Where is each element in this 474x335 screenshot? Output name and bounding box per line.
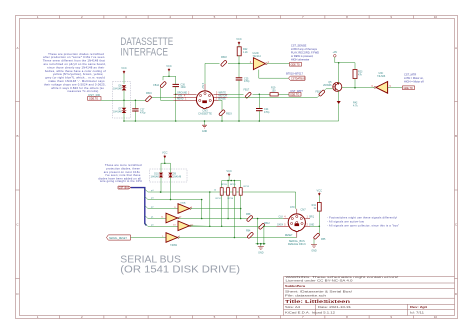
hierarchical label CSTDATBUS <box>289 76 306 80</box>
global label GDE.TO (CST_SENSE) <box>290 63 302 67</box>
svg-text:FB16: FB16 <box>146 92 152 95</box>
svg-text:File: datassette.sch: File: datassette.sch <box>285 293 327 297</box>
svg-text:470p: 470p <box>140 111 146 114</box>
svg-text:HIGH = Motor off: HIGH = Motor off <box>404 80 424 84</box>
svg-text:VCC: VCC <box>166 64 172 68</box>
power VCC (above R22) <box>236 37 242 47</box>
svg-text:2N3906: 2N3906 <box>323 84 332 87</box>
svg-text:LOW = Motor on,: LOW = Motor on, <box>404 76 424 80</box>
svg-text:Rev: 2git: Rev: 2git <box>410 305 427 309</box>
diode D10 1N4148 <box>150 173 163 179</box>
svg-text:ATN: ATN <box>290 206 295 209</box>
svg-text:RP1C: RP1C <box>216 198 222 200</box>
svg-text:FB8: FB8 <box>246 213 251 216</box>
svg-text:VCC: VCC <box>162 151 168 155</box>
diode D7 1N4148 <box>113 100 126 121</box>
resistor pack labels <box>214 184 250 200</box>
svg-text:VCC: VCC <box>236 37 242 41</box>
wire ATN line <box>161 192 296 209</box>
svg-text:Licensed under CC BY-NC-SA 4.0: Licensed under CC BY-NC-SA 4.0 <box>286 279 354 283</box>
junction (write/C24) <box>259 94 261 96</box>
global label CST bus <box>118 186 131 190</box>
ferrite bead FB14 <box>153 81 166 88</box>
CN3 right pin stubs + labels <box>213 93 227 101</box>
svg-text:VCC: VCC <box>121 66 127 70</box>
svg-text:RP1D: RP1D <box>230 184 236 186</box>
svg-text:VCC: VCC <box>226 169 232 173</box>
ground symbol (serial left) <box>258 247 264 255</box>
CN7 pin stubs + labels <box>277 206 315 238</box>
svg-text:GND: GND <box>258 252 264 255</box>
capacitor C26 100n <box>173 83 187 121</box>
svg-text:VCC: VCC <box>317 188 323 192</box>
svg-text:INTERFACE: INTERFACE <box>120 47 168 59</box>
capacitor C24 470p <box>256 94 270 121</box>
svg-text:FB12: FB12 <box>264 222 270 225</box>
svg-text:10: 10 <box>434 315 438 319</box>
svg-text:10: 10 <box>434 15 438 19</box>
wire sense top run <box>205 63 253 84</box>
title block <box>284 277 455 316</box>
svg-text:1N4148: 1N4148 <box>113 110 122 113</box>
svg-text:470p: 470p <box>244 80 250 83</box>
svg-text:HIGH otherwise: HIGH otherwise <box>291 57 310 61</box>
svg-text:Id: 7/11: Id: 7/11 <box>410 310 425 314</box>
dashed box around D6 D7 <box>113 82 131 119</box>
svg-text:4.7k: 4.7k <box>353 104 358 107</box>
resistor R19 <box>270 87 278 96</box>
svg-text:150: 150 <box>272 90 277 93</box>
resistor RP10C <box>233 181 236 239</box>
power VCC (serial diodes) <box>162 151 168 164</box>
resistor pack RP10 top rail + VCC <box>222 169 241 182</box>
ferrite bead FB4 (on reset line) <box>247 232 254 239</box>
ferrite bead FB18 <box>220 56 227 67</box>
svg-text:CN7: CN7 <box>301 208 307 212</box>
wire DATA line to CN7 <box>210 225 277 227</box>
svg-text:B: B <box>455 134 457 138</box>
svg-text:FEMALE DIN-6: FEMALE DIN-6 <box>288 242 306 246</box>
svg-text:FB14: FB14 <box>153 84 159 87</box>
wire write line <box>228 93 290 95</box>
svg-text:RP1F: RP1F <box>244 186 250 188</box>
svg-text:FB4: FB4 <box>246 230 251 233</box>
note: protection diode comment (blue paragraph) <box>43 52 106 93</box>
note CST_SENSE (blue) <box>291 43 319 61</box>
svg-text:MOTOR: MOTOR <box>219 96 228 98</box>
junction (D6/D7/READ) <box>123 100 125 102</box>
svg-text:Title: LittleSixteen: Title: LittleSixteen <box>285 299 351 304</box>
svg-text:A: A <box>16 46 18 50</box>
inverter U10A (7406) top <box>174 202 241 220</box>
ferrite bead FB5 + wire to gnd <box>313 226 326 245</box>
svg-text:GDE.TO: GDE.TO <box>89 98 98 101</box>
svg-text:- All signals are active-low: - All signals are active-low <box>327 220 364 224</box>
global label SERIAL_RESET <box>107 235 131 240</box>
svg-text:BT010~BT017: BT010~BT017 <box>286 72 303 76</box>
ferrite bead FB16 <box>145 92 152 102</box>
global label CST_RD <box>88 93 102 101</box>
ground symbol (datassette) <box>202 120 208 133</box>
svg-text:+9V: +9V <box>332 50 337 54</box>
svg-text:1N4148: 1N4148 <box>150 176 159 178</box>
svg-text:or REW is pressed,: or REW is pressed, <box>291 54 314 58</box>
note CST_MTR (blue) <box>404 73 424 84</box>
connector CN3 C2N CASSETTE (DIN) <box>196 91 213 116</box>
svg-text:CLK: CLK <box>279 217 284 219</box>
svg-text:GROUND: GROUND <box>177 93 188 95</box>
capacitor C27 470p <box>132 100 146 122</box>
svg-text:Date: 2021-10-31: Date: 2021-10-31 <box>318 305 352 309</box>
svg-text:GDE.TO: GDE.TO <box>291 64 300 67</box>
note: serial protection diodes comment (blue paragraph) <box>98 163 142 183</box>
wire ground rail <box>124 120 339 122</box>
connector CN7 SERIAL_BUS (DIN-6) <box>288 208 306 247</box>
svg-text:FB17: FB17 <box>244 88 250 91</box>
svg-text:1N4148: 1N4148 <box>113 87 122 90</box>
ground symbol (serial right) <box>311 245 317 253</box>
svg-text:RP1B: RP1B <box>221 184 227 186</box>
wire motor line <box>228 89 333 98</box>
global label GDE.TO (CST_WRT) <box>289 93 301 97</box>
inverter U10D (7406) reset <box>162 233 296 247</box>
wire Q5 collector to rail with diode mark <box>337 91 359 121</box>
ferrite bead FB7 (on CLK) <box>246 215 253 222</box>
svg-text:CST_MTR: CST_MTR <box>404 73 416 77</box>
inverter U10B (7406) <box>161 213 201 223</box>
svg-text:74LS06: 74LS06 <box>377 75 386 78</box>
dashed box around D10 D9 <box>150 169 188 182</box>
svg-text:U10A: U10A <box>180 202 186 205</box>
svg-text:7406N: 7406N <box>170 244 177 247</box>
resistor R22 <box>237 47 248 64</box>
ferrite bead FB19 <box>219 100 233 121</box>
svg-text:D10: D10 <box>154 174 159 176</box>
svg-text:100n: 100n <box>181 86 187 89</box>
resistor R23 <box>353 63 363 88</box>
svg-text:FB5: FB5 <box>321 238 326 241</box>
svg-text:RP1E: RP1E <box>228 198 234 200</box>
svg-text:CASSETTE: CASSETTE <box>198 111 212 115</box>
diode D6 1N4148 <box>113 85 126 101</box>
svg-text:- All signals are open collect: - All signals are open collector, since … <box>327 224 399 228</box>
svg-text:READ: READ <box>177 98 184 101</box>
svg-text:CST_BUS: CST_BUS <box>119 188 130 190</box>
svg-text:RESET: RESET <box>285 235 293 237</box>
notes: serial bus signal notes (blue) <box>327 215 399 227</box>
wire CLK line to CN7 <box>202 218 284 220</box>
section title SERIAL BUS <box>120 254 240 275</box>
resistor RP10D <box>239 181 242 219</box>
wire VCC node split <box>161 76 176 100</box>
bus entries + branch wires <box>145 189 210 226</box>
svg-text:LOW if any of the keys: LOW if any of the keys <box>291 47 318 51</box>
op-amp U9C 74LS06 (inverter, points left) <box>342 72 402 93</box>
resistor RP10B <box>227 181 230 220</box>
wire emitter rail <box>335 63 355 83</box>
svg-text:FB19: FB19 <box>226 112 232 115</box>
svg-text:PLAY, RECORD, F.FWD: PLAY, RECORD, F.FWD <box>291 50 319 54</box>
wire VCC split to D10/D9 <box>161 163 171 199</box>
capacitor C25 470p <box>236 63 250 121</box>
svg-text:DATA: DATA <box>277 223 283 226</box>
svg-text:1.2k: 1.2k <box>243 51 248 54</box>
junction CLK source <box>170 199 172 201</box>
section title DATASSETTE INTERFACE <box>120 36 173 59</box>
global label GDE.TO (CST_MTR) <box>403 86 415 90</box>
svg-text:CST_RD: CST_RD <box>88 93 101 97</box>
svg-text:- Footswitches might use these: - Footswitches might use these signals d… <box>327 215 398 219</box>
bus (thick blue) <box>131 188 147 226</box>
wire DATA vertical link <box>209 192 211 226</box>
svg-text:GND: GND <box>202 130 208 133</box>
svg-text:GDE.TO: GDE.TO <box>290 94 299 97</box>
svg-text:A: A <box>455 46 457 50</box>
svg-text:WRITE: WRITE <box>219 93 227 95</box>
svg-text:470p: 470p <box>264 111 270 114</box>
svg-text:CSTDATBUS: CSTDATBUS <box>291 77 306 80</box>
wire reset line to inverter <box>131 237 167 239</box>
svg-text:KiCad E.D.A. kicad 5.1.12: KiCad E.D.A. kicad 5.1.12 <box>285 310 336 314</box>
svg-text:Size: A4: Size: A4 <box>285 305 301 309</box>
CN3 left pin stubs + labels <box>174 93 197 101</box>
svg-text:wire going straight to the CPU: wire going straight to the CPU <box>100 179 142 183</box>
op-amp U12D 74LS14 (schmitt inverter) <box>250 52 290 70</box>
svg-text:FB18: FB18 <box>221 56 227 59</box>
svg-text:74LS14: 74LS14 <box>253 55 262 58</box>
svg-text:+5V: +5V <box>178 96 183 98</box>
power VCC (above C26/FB14 node) <box>166 64 172 77</box>
inverter U10C (7406) <box>173 221 210 231</box>
power +9V <box>332 50 337 63</box>
transistor Q5 2N3906 <box>323 81 342 91</box>
diode D9 1N4148 <box>168 173 181 179</box>
ferrite bead FB17 <box>244 88 252 98</box>
svg-text:GDE.TO: GDE.TO <box>404 87 413 90</box>
resistor RP10A <box>220 181 223 228</box>
svg-text:B: B <box>16 134 18 138</box>
ground drops from shield beads <box>256 219 266 247</box>
svg-text:SERIAL_RESET: SERIAL_RESET <box>109 237 127 240</box>
svg-text:SRQ: SRQ <box>309 217 314 219</box>
ferrite bead FB13 <box>316 90 326 97</box>
resistor R41 <box>310 203 321 227</box>
wire U12 lower pin to bus label <box>259 70 289 79</box>
power VCC (above R41) <box>317 188 323 202</box>
wire CLK vertical link <box>201 200 203 219</box>
svg-text:CST_SENSE: CST_SENSE <box>291 43 307 47</box>
branch pin labels <box>151 190 154 226</box>
ferrite bead FB12 (on DATA) <box>258 223 265 230</box>
CN3 top pin stub (sense) <box>203 82 205 91</box>
power VCC (above D6) <box>121 66 127 84</box>
svg-text:GND: GND <box>311 250 317 253</box>
svg-text:(OR 1541 DISK DRIVE): (OR 1541 DISK DRIVE) <box>120 265 240 276</box>
wire READ line <box>101 97 174 100</box>
svg-text:SukkoPera: SukkoPera <box>285 284 306 288</box>
svg-text:1N4148: 1N4148 <box>173 176 182 178</box>
